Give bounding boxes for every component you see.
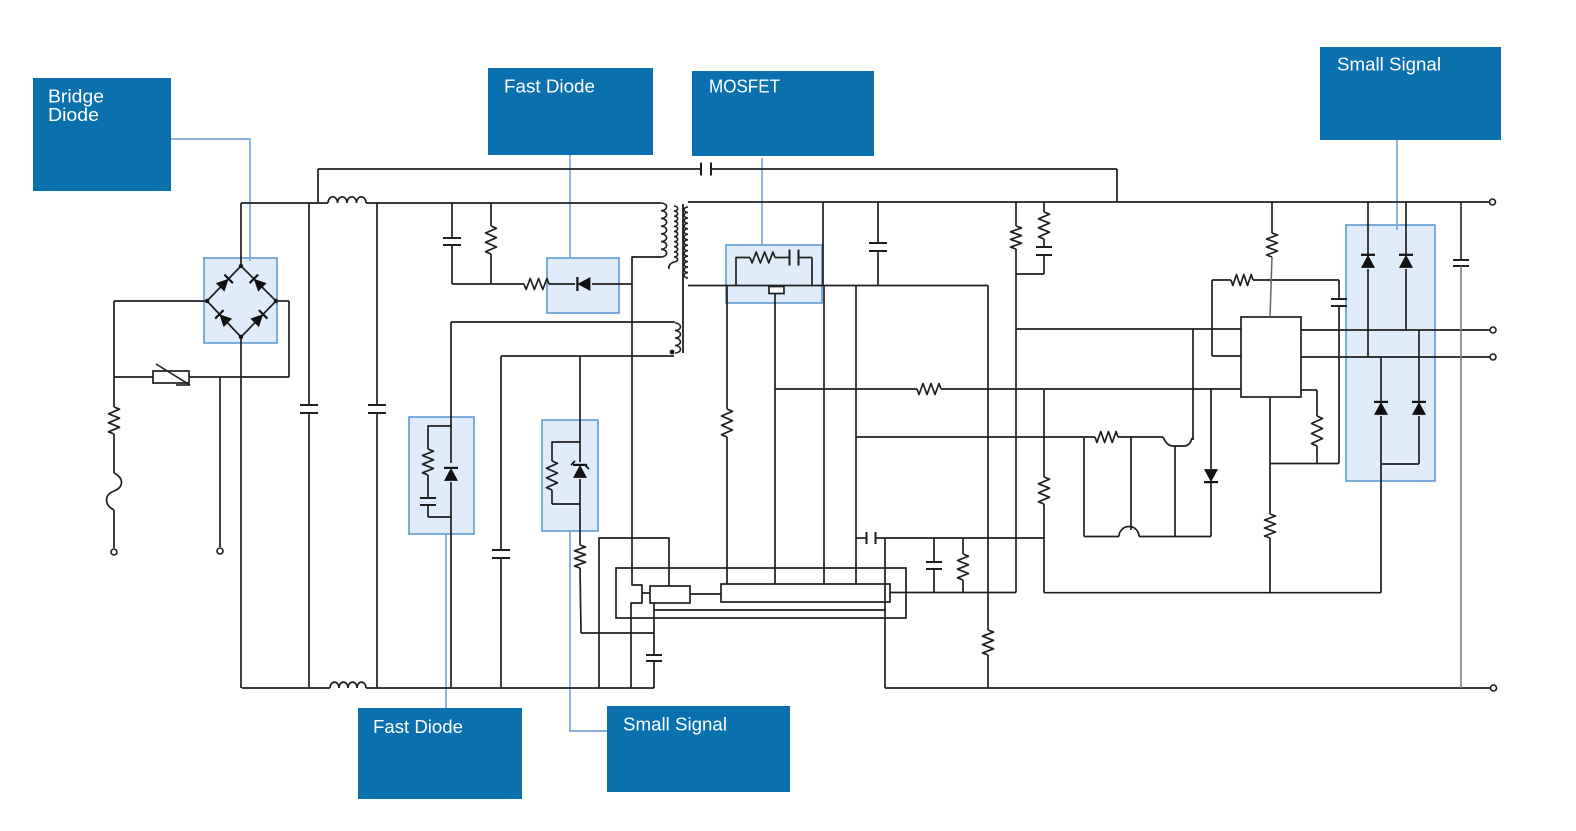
svg-text:MOSFET: MOSFET (709, 76, 780, 97)
svg-text:Fast Diode: Fast Diode (504, 76, 595, 97)
svg-text:Small Signal: Small Signal (1337, 54, 1441, 75)
svg-text:Fast Diode: Fast Diode (373, 716, 463, 737)
svg-text:Diode: Diode (48, 104, 99, 125)
svg-text:Small Signal: Small Signal (623, 714, 727, 735)
